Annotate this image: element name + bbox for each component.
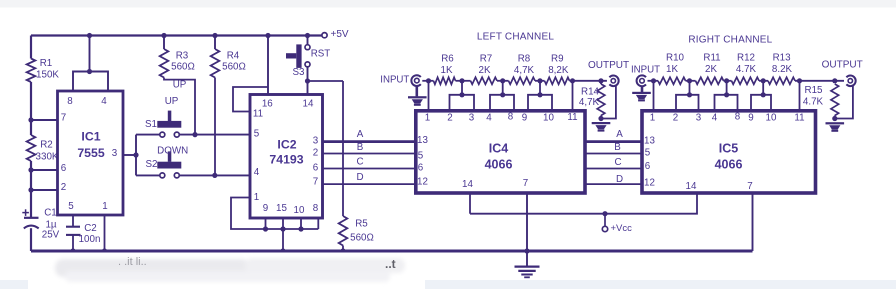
svg-text:S2: S2 (146, 159, 158, 170)
junction top rail IC1 feed (87, 33, 92, 38)
wire IC1 pins 8-4 supply (73, 36, 108, 92)
wire D IC2-IC4 (323, 172, 416, 184)
wire left rail R1-R2 (30, 82, 32, 135)
IC U5 analog switch IC5 4066 (642, 111, 816, 193)
svg-text:5: 5 (645, 147, 651, 158)
svg-text:1: 1 (102, 201, 107, 212)
resistor R13 (768, 53, 795, 85)
wire A IC2-IC4 (323, 129, 416, 142)
wire right tap48 drop (726, 81, 728, 95)
svg-text:1: 1 (650, 113, 655, 124)
wire left rail upper (30, 36, 32, 59)
junction pin6 node (28, 167, 33, 172)
resistor R7 (471, 54, 498, 85)
wire S1 left stub (136, 134, 160, 136)
svg-text:4: 4 (101, 96, 107, 107)
svg-text:IC5: IC5 (719, 142, 739, 156)
svg-text:8: 8 (508, 112, 514, 123)
resistor R14 (579, 81, 605, 119)
svg-text:OUTPUT: OUTPUT (588, 60, 629, 71)
wire right tap910 drop (762, 81, 764, 95)
wire C IC4-IC5 (585, 157, 642, 169)
junction Vcc stub (602, 211, 607, 216)
wire S2 left stub (136, 174, 160, 176)
IC U2 counter IC2 74193 (250, 95, 323, 219)
svg-text:560Ω: 560Ω (171, 62, 195, 73)
svg-text:R4: R4 (227, 51, 240, 62)
svg-text:S3: S3 (293, 67, 306, 78)
svg-text:B: B (614, 142, 621, 153)
svg-text:2: 2 (313, 148, 318, 159)
switch S3 RST pushbutton (286, 44, 330, 77)
svg-text:9: 9 (263, 203, 268, 214)
svg-text:INPUT: INPUT (380, 75, 409, 86)
junction left pin1 tap (426, 78, 431, 83)
svg-text:A: A (357, 129, 364, 140)
svg-text:11: 11 (567, 112, 577, 123)
svg-text:D: D (356, 172, 363, 183)
svg-text:3: 3 (112, 148, 118, 159)
wire A IC4-IC5 (585, 129, 642, 142)
node +5V terminal (322, 29, 349, 40)
svg-text:IC4: IC4 (489, 142, 509, 156)
wire IC2 pin9 drop (265, 218, 267, 229)
junction pin3 node (133, 152, 138, 157)
svg-text:25V: 25V (42, 230, 60, 241)
wire R10-R11 (686, 80, 696, 82)
wire J1 to chain (422, 80, 433, 82)
junction R3 top (161, 33, 166, 38)
svg-text:3: 3 (696, 112, 702, 123)
svg-text:RST: RST (311, 49, 331, 60)
junction left output node (598, 78, 603, 83)
svg-text:4: 4 (712, 112, 718, 123)
svg-text:R14: R14 (581, 87, 600, 98)
ground left input (408, 96, 427, 106)
wire D IC4-IC5 (585, 174, 642, 185)
svg-text:560Ω: 560Ω (350, 233, 374, 244)
capacitor C1 (22, 208, 59, 241)
junction right tap23 (687, 78, 692, 83)
svg-text:R8: R8 (518, 54, 531, 65)
svg-text:13: 13 (644, 135, 655, 146)
svg-text:R9: R9 (551, 54, 564, 65)
junction IC4 pin7 ground (524, 248, 529, 253)
top page bar (0, 0, 896, 8)
wire +5V top rail (31, 34, 322, 36)
svg-text:2: 2 (61, 182, 66, 193)
connector J1 left input jack (380, 75, 421, 86)
resistor R1 (27, 58, 60, 82)
capacitor C2 (66, 223, 100, 245)
svg-text:10: 10 (294, 205, 305, 216)
resistor R9 (545, 54, 570, 85)
svg-text:1K: 1K (441, 65, 453, 76)
junction bracket23 right (687, 92, 692, 97)
svg-text:10: 10 (766, 113, 777, 124)
wire left tap48 drop (502, 81, 504, 95)
svg-text:R15: R15 (805, 85, 824, 96)
switch S2 DOWN pushbutton (146, 146, 189, 178)
wire R13 to output node (795, 80, 844, 82)
svg-text:8: 8 (67, 96, 73, 107)
wire bracket pins9-10 right (751, 95, 771, 111)
svg-text:6: 6 (313, 163, 319, 174)
ground main (515, 251, 540, 277)
svg-text:74193: 74193 (269, 152, 303, 166)
wire IC1 pin2 (31, 189, 58, 191)
junction IC1 pin1 ground (102, 248, 107, 253)
ground R15 (826, 122, 845, 132)
connector J2 left output jack (588, 60, 629, 86)
svg-text:LEFT CHANNEL: LEFT CHANNEL (477, 32, 554, 43)
watermark smudge (28, 253, 425, 289)
svg-text:7: 7 (313, 177, 318, 188)
IC U1 timer IC1 7555 (58, 91, 124, 215)
bottom page bar (0, 280, 896, 289)
wire bracket pins2-3 (450, 95, 475, 111)
resistor R10 (658, 53, 686, 85)
junction left tap48 (500, 78, 505, 83)
wire IC4 pin11 drop (572, 81, 574, 111)
wire bracket pins2-3 right (676, 95, 699, 111)
wire S2 to IC2 pin4 (179, 174, 250, 176)
wire S3 to IC2 pin14 (307, 67, 309, 95)
wire S1 to IC2 pin5 (179, 134, 250, 136)
wire J4 shield tail (835, 85, 853, 118)
junction right tap48 (724, 78, 729, 83)
svg-text:11: 11 (794, 112, 804, 123)
svg-text:5: 5 (254, 129, 260, 140)
svg-text:12: 12 (417, 177, 428, 188)
junction R15 ground node (832, 116, 837, 121)
wire J2 shield tail (601, 85, 616, 118)
junction left tap910 (537, 78, 542, 83)
svg-text:3: 3 (469, 112, 475, 123)
svg-text:IC1: IC1 (81, 130, 100, 144)
svg-text:11: 11 (253, 109, 263, 120)
wire ground rail (31, 249, 753, 252)
wire R11-R12 (724, 80, 732, 82)
svg-text:4.7K: 4.7K (803, 97, 824, 108)
svg-text:16: 16 (262, 98, 273, 109)
svg-text:8.2K: 8.2K (772, 64, 793, 75)
junction bracket48 right (724, 92, 729, 97)
svg-text:+Vcc: +Vcc (611, 223, 633, 234)
wire IC2 pin8 drop (317, 218, 319, 229)
resistor R12 (732, 53, 760, 85)
svg-text:+5V: +5V (331, 29, 349, 40)
wire bracket pins4-8 right (715, 95, 738, 111)
svg-text:C1: C1 (44, 208, 57, 219)
ground right input (632, 92, 651, 102)
junction pin2 node (28, 187, 33, 192)
wire IC1 pin1 drop (104, 215, 106, 251)
resistor R11 (696, 53, 724, 85)
svg-text:1: 1 (425, 113, 430, 124)
svg-text:OUTPUT: OUTPUT (822, 60, 863, 71)
wire IC2 pin10 drop (300, 218, 302, 229)
svg-text:100n: 100n (79, 234, 101, 245)
wire B IC4-IC5 (585, 142, 642, 153)
svg-text:7: 7 (747, 181, 752, 192)
svg-text:R6: R6 (441, 54, 454, 65)
svg-text:10: 10 (543, 113, 554, 124)
svg-text:150K: 150K (36, 69, 59, 80)
wire R5 to ground rail (342, 246, 344, 252)
svg-text:6: 6 (418, 162, 424, 173)
wire R9 to output node (570, 80, 607, 82)
junction R4 top (212, 33, 217, 38)
wire R4 to DOWN net (214, 78, 216, 176)
svg-text:2: 2 (673, 112, 678, 123)
junction bus ground (280, 248, 285, 253)
wire IC5 pin14 to Vcc (470, 193, 697, 214)
wire IC4 pin14 to Vcc (469, 193, 471, 214)
junction bracket48 (500, 92, 505, 97)
svg-text:4066: 4066 (485, 157, 513, 171)
svg-text:14: 14 (686, 181, 697, 192)
wire C1 to ground rail (30, 228, 32, 251)
svg-text:3: 3 (313, 135, 319, 146)
resistor R3 (160, 36, 195, 78)
wire IC5 pin11 drop (799, 81, 801, 111)
svg-text:S1: S1 (145, 119, 157, 130)
wire left rail R2-C1 (30, 161, 32, 217)
svg-text:. .it li..: . .it li.. (118, 256, 147, 268)
wire R6-R7 (456, 80, 471, 82)
junction pin16 rail (265, 33, 270, 38)
wire R7-R8 (497, 80, 509, 82)
wire IC2 pin16 to +5V (267, 36, 269, 96)
svg-text:R5: R5 (355, 219, 368, 230)
svg-text:R10: R10 (666, 53, 685, 64)
wire B IC2-IC4 (323, 142, 416, 154)
svg-text:560Ω: 560Ω (222, 62, 246, 73)
svg-text:R2: R2 (40, 140, 53, 151)
wire bracket pins4-8 (490, 95, 514, 111)
junction bracket910 right (761, 92, 766, 97)
svg-text:2K: 2K (705, 64, 717, 75)
wire J1 shield stem (415, 86, 418, 96)
wire S3 upper stub (307, 36, 309, 45)
node LEFT CHANNEL label (477, 32, 554, 43)
node +Vcc terminal (602, 214, 632, 234)
junction right pin1 tap (651, 78, 656, 83)
svg-text:9: 9 (748, 112, 753, 123)
svg-text:330K: 330K (36, 152, 59, 163)
node RIGHT CHANNEL label (688, 35, 772, 46)
svg-text:4,7K: 4,7K (579, 97, 600, 108)
svg-text:R11: R11 (703, 53, 720, 64)
connector J4 right output jack (822, 60, 863, 86)
wire IC4 pin1 drop (428, 81, 430, 111)
junction C2 ground (70, 248, 75, 253)
svg-text:6: 6 (645, 161, 651, 172)
svg-text:4066: 4066 (715, 157, 743, 171)
wire IC2 pin1 bus (231, 198, 318, 230)
svg-text:14: 14 (303, 98, 314, 109)
svg-text:7555: 7555 (77, 146, 105, 160)
svg-text:RIGHT CHANNEL: RIGHT CHANNEL (688, 35, 772, 46)
svg-text:R13: R13 (773, 53, 792, 64)
junction left tap23 (459, 78, 464, 83)
wire J3 to chain (648, 80, 659, 82)
IC U4 analog switch IC4 4066 (416, 111, 585, 193)
wire IC1 pin3 (123, 135, 136, 176)
wire RST to R5 (308, 81, 344, 216)
wire bracket pins9-10 (528, 95, 552, 111)
junction right output node (832, 78, 837, 83)
junction R5 ground (340, 248, 345, 253)
junction right tap910 (761, 78, 766, 83)
junction R14 ground node (598, 116, 603, 121)
svg-text:B: B (357, 142, 364, 153)
svg-text:D: D (616, 174, 623, 185)
svg-text:4,7K: 4,7K (514, 65, 535, 76)
svg-text:INPUT: INPUT (631, 65, 660, 76)
svg-text:4.7K: 4.7K (736, 64, 757, 75)
wire IC4 pin7 to ground (526, 193, 528, 251)
wire IC2 pin15 drop (282, 218, 284, 229)
junction DOWN net (212, 173, 217, 178)
svg-text:..t: ..t (385, 257, 396, 271)
svg-text:R7: R7 (480, 54, 493, 65)
svg-text:A: A (616, 129, 623, 140)
junction right pin11 tap (797, 78, 802, 83)
wire C IC2-IC4 (323, 156, 416, 168)
ground R14 (592, 122, 611, 132)
svg-text:C: C (356, 156, 363, 167)
svg-text:4: 4 (254, 167, 260, 178)
junction pin10 bus (298, 226, 303, 231)
wire left tap23 drop (461, 81, 463, 95)
wire J3 shield stem (641, 86, 644, 92)
wire R3 to UP net (164, 78, 195, 135)
svg-text:8,2K: 8,2K (548, 65, 569, 76)
junction pin15 bus (280, 226, 285, 231)
svg-text:9: 9 (522, 112, 527, 123)
svg-text:1K: 1K (666, 64, 678, 75)
svg-text:5: 5 (418, 151, 424, 162)
wire IC1 pin6 (31, 169, 58, 171)
svg-text:12: 12 (644, 178, 655, 189)
junction UP net (192, 132, 197, 137)
junction RST net (305, 78, 310, 83)
wire bus to ground rail (282, 229, 284, 251)
svg-text:15: 15 (276, 203, 287, 214)
wire IC1 pin7 (31, 119, 58, 121)
svg-text:8: 8 (313, 203, 319, 214)
svg-text:1: 1 (254, 192, 259, 203)
svg-text:C2: C2 (84, 223, 97, 234)
svg-text:7: 7 (523, 178, 528, 189)
wire R12-R13 (759, 80, 768, 82)
resistor R6 (434, 54, 456, 85)
svg-text:C: C (614, 157, 621, 168)
svg-text:IC2: IC2 (277, 137, 296, 151)
svg-text:4: 4 (486, 112, 492, 123)
svg-text:UP: UP (173, 79, 187, 90)
resistor R5 (339, 216, 374, 246)
wire IC5 pin7 to ground rail (752, 193, 754, 251)
svg-text:5: 5 (68, 201, 74, 212)
wire R8-R9 (535, 80, 545, 82)
wire IC5 pin1 drop (653, 81, 655, 111)
svg-text:13: 13 (417, 135, 428, 146)
junction bracket910 (537, 92, 542, 97)
wire right tap23 drop (689, 81, 691, 95)
svg-text:7: 7 (61, 113, 66, 124)
connector J3 right input jack (631, 65, 660, 87)
resistor R15 (803, 84, 839, 119)
wire C2 to ground rail (72, 235, 74, 251)
svg-text:DOWN: DOWN (157, 146, 188, 157)
svg-text:2: 2 (447, 112, 452, 123)
junction left pin11 tap (570, 78, 575, 83)
junction pin9 bus (263, 226, 268, 231)
resistor R2 (27, 135, 59, 163)
svg-text:R3: R3 (176, 51, 189, 62)
junction S3 top (305, 33, 310, 38)
junction IC1 pins 8-4 bar (87, 69, 92, 74)
svg-text:2K: 2K (479, 65, 491, 76)
svg-text:R1: R1 (40, 58, 53, 69)
resistor R4 (211, 36, 246, 78)
wire left tap910 drop (539, 81, 541, 95)
wire IC1 pin5 drop (72, 215, 74, 227)
wire IC2 pin11 tie (233, 87, 268, 112)
svg-text:UP: UP (165, 96, 179, 107)
switch S1 UP pushbutton (145, 96, 181, 137)
junction pin7 node (28, 117, 33, 122)
junction bracket23 (459, 92, 464, 97)
svg-text:14: 14 (462, 179, 473, 190)
resistor R8 (509, 54, 536, 85)
svg-text:8: 8 (735, 112, 741, 123)
svg-text:6: 6 (61, 163, 67, 174)
svg-text:R12: R12 (737, 53, 755, 64)
